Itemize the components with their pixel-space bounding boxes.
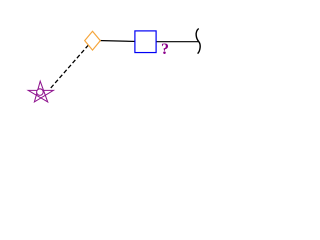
- diamond residue: [85, 31, 101, 50]
- square residue: [135, 31, 156, 53]
- wire bond square to reducing end: [145, 41, 198, 43]
- svg-text:?: ?: [161, 41, 169, 58]
- wire dashed bond star to diamond: [51, 41, 93, 88]
- wire bond diamond to square: [92, 40, 145, 41]
- reducing end bracket: [196, 29, 200, 54]
- circle marker on star: [37, 89, 44, 96]
- star (pentagram residue symbol): [28, 81, 53, 102]
